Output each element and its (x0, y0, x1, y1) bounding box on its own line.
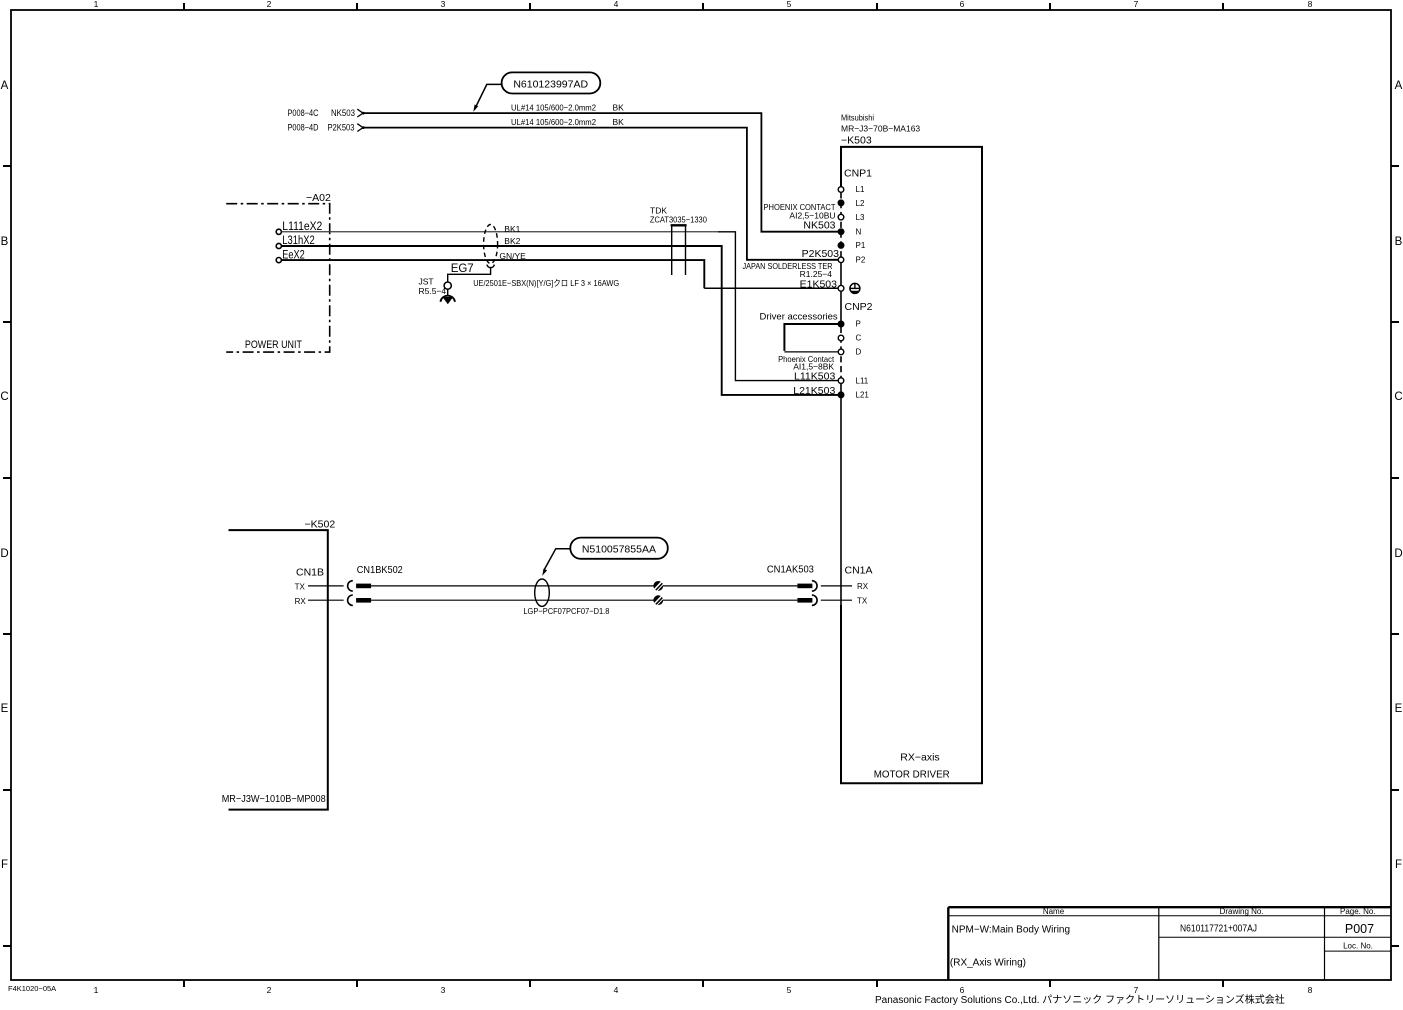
svg-text:Page. No.: Page. No. (1340, 907, 1376, 916)
svg-text:−K503: −K503 (841, 135, 872, 147)
svg-text:RX: RX (857, 582, 869, 591)
svg-text:7: 7 (1134, 985, 1139, 995)
svg-text:L111eX2: L111eX2 (282, 221, 322, 233)
svg-text:Driver accessories: Driver accessories (760, 312, 838, 323)
svg-text:Name: Name (1043, 907, 1065, 916)
svg-text:1: 1 (94, 0, 99, 9)
svg-text:P008−4D: P008−4D (288, 123, 319, 133)
svg-text:F: F (1, 859, 8, 871)
svg-text:UL#14 105/600−2.0mm2: UL#14 105/600−2.0mm2 (511, 103, 596, 113)
svg-text:R5.5−4: R5.5−4 (419, 286, 447, 296)
svg-text:Panasonic Factory Solutions Co: Panasonic Factory Solutions Co.,Ltd. パナソ… (875, 993, 1285, 1006)
svg-text:CN1A: CN1A (845, 565, 873, 577)
svg-text:4: 4 (614, 0, 619, 9)
svg-text:MR−J3W−1010B−MP008: MR−J3W−1010B−MP008 (222, 794, 326, 805)
svg-text:CN1BK502: CN1BK502 (357, 564, 403, 576)
svg-text:5: 5 (787, 0, 792, 9)
svg-text:BK1: BK1 (504, 224, 520, 234)
svg-text:NK503: NK503 (331, 108, 355, 118)
svg-text:A: A (1395, 80, 1403, 92)
svg-text:JST: JST (419, 277, 434, 287)
svg-text:3: 3 (441, 985, 446, 995)
svg-text:ZCAT3035−1330: ZCAT3035−1330 (650, 214, 707, 224)
svg-text:CN1AK503: CN1AK503 (767, 564, 814, 576)
svg-text:LGP−PCF07PCF07−D1.8: LGP−PCF07PCF07−D1.8 (523, 606, 609, 616)
svg-text:P1: P1 (856, 241, 866, 250)
svg-text:P2: P2 (856, 256, 866, 265)
svg-text:8: 8 (1308, 985, 1313, 995)
svg-text:N510057855AA: N510057855AA (582, 544, 656, 556)
svg-text:CN1B: CN1B (296, 567, 324, 579)
svg-text:L3: L3 (856, 213, 865, 222)
svg-text:5: 5 (787, 985, 792, 995)
svg-text:D: D (856, 348, 862, 357)
svg-text:L1: L1 (856, 185, 865, 194)
svg-text:TX: TX (857, 596, 868, 605)
svg-text:NPM−W:Main Body Wiring: NPM−W:Main Body Wiring (952, 925, 1070, 936)
svg-text:−K502: −K502 (305, 519, 336, 531)
svg-text:E: E (1, 703, 9, 715)
svg-text:2: 2 (267, 0, 272, 9)
svg-text:−A02: −A02 (306, 192, 331, 204)
svg-text:E1K503: E1K503 (800, 279, 838, 291)
svg-text:L11K503: L11K503 (794, 371, 835, 383)
svg-text:UL#14 105/600−2.0mm2: UL#14 105/600−2.0mm2 (511, 117, 596, 127)
svg-text:(RX_Axis Wiring): (RX_Axis Wiring) (950, 958, 1026, 969)
svg-text:L21K503: L21K503 (793, 385, 835, 397)
svg-text:A: A (1, 80, 9, 92)
svg-text:CNP1: CNP1 (844, 168, 872, 180)
svg-text:L2: L2 (856, 199, 865, 208)
svg-text:4: 4 (614, 985, 619, 995)
svg-text:P2K503: P2K503 (802, 248, 840, 260)
svg-text:D: D (1394, 548, 1402, 560)
svg-text:B: B (1, 236, 9, 248)
svg-text:Mitsubishi: Mitsubishi (841, 113, 874, 123)
svg-text:N610117721+007AJ: N610117721+007AJ (1180, 924, 1257, 935)
svg-text:P008−4C: P008−4C (288, 108, 319, 118)
svg-text:N610123997AD: N610123997AD (513, 79, 588, 91)
svg-text:UE/2501E−SBX(N)[Y/G]クロ LF 3 ×: UE/2501E−SBX(N)[Y/G]クロ LF 3 × 16AWG (473, 278, 619, 288)
svg-text:3: 3 (441, 0, 446, 9)
svg-text:GN/YE: GN/YE (499, 251, 526, 261)
svg-text:MOTOR DRIVER: MOTOR DRIVER (874, 769, 950, 781)
svg-text:D: D (0, 548, 8, 560)
svg-text:RX: RX (295, 597, 307, 606)
svg-text:F4K1020−05A: F4K1020−05A (8, 984, 56, 993)
svg-text:1: 1 (94, 985, 99, 995)
svg-text:POWER UNIT: POWER UNIT (245, 339, 302, 351)
svg-text:L21: L21 (856, 391, 870, 400)
svg-text:6: 6 (960, 0, 965, 9)
svg-text:6: 6 (960, 985, 965, 995)
svg-text:E: E (1395, 703, 1403, 715)
svg-text:EG7: EG7 (451, 263, 474, 275)
svg-text:TX: TX (295, 583, 306, 592)
svg-text:C: C (0, 391, 8, 403)
svg-text:B: B (1395, 236, 1403, 248)
svg-text:BK2: BK2 (504, 236, 520, 246)
svg-text:8: 8 (1308, 0, 1313, 9)
svg-text:7: 7 (1134, 0, 1139, 9)
svg-text:2: 2 (267, 985, 272, 995)
svg-text:Drawing No.: Drawing No. (1220, 907, 1264, 916)
svg-text:CNP2: CNP2 (845, 301, 873, 313)
svg-text:BK: BK (613, 103, 625, 113)
svg-text:N: N (856, 227, 862, 236)
svg-text:P: P (856, 320, 861, 329)
svg-text:R1.25−4: R1.25−4 (800, 269, 833, 279)
svg-text:RX−axis: RX−axis (900, 752, 939, 764)
svg-text:L11: L11 (856, 376, 869, 385)
svg-text:F: F (1395, 859, 1402, 871)
svg-text:Loc. No.: Loc. No. (1343, 941, 1373, 950)
svg-text:MR−J3−70B−MA163: MR−J3−70B−MA163 (841, 124, 920, 134)
svg-text:NK503: NK503 (803, 220, 835, 232)
svg-text:P007: P007 (1345, 922, 1374, 936)
svg-text:C: C (1394, 391, 1402, 403)
svg-text:C: C (856, 334, 862, 343)
svg-text:P2K503: P2K503 (328, 123, 355, 133)
svg-text:BK: BK (613, 117, 625, 127)
